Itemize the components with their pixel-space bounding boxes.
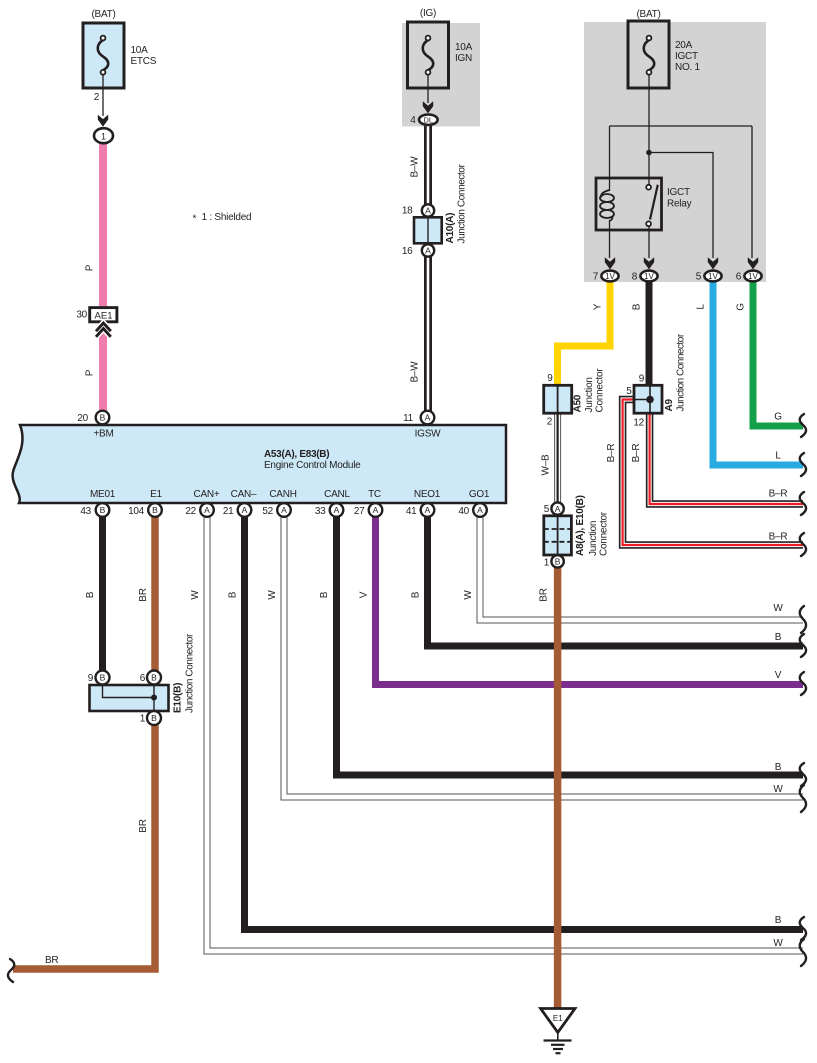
svg-text:1V: 1V: [748, 272, 758, 281]
svg-text:9: 9: [639, 374, 645, 385]
svg-text:P: P: [85, 369, 96, 376]
svg-text:B: B: [151, 713, 157, 723]
svg-text:5: 5: [626, 386, 632, 397]
svg-text:BR: BR: [539, 588, 550, 601]
svg-text:1V: 1V: [708, 272, 718, 281]
svg-text:A: A: [555, 504, 561, 514]
svg-text:*: *: [193, 214, 197, 225]
svg-text:IGSW: IGSW: [415, 429, 441, 440]
svg-text:1: 1: [140, 714, 146, 725]
svg-text:10A: 10A: [455, 42, 473, 53]
svg-text:W–B: W–B: [541, 454, 552, 476]
svg-text:E10(B): E10(B): [173, 683, 184, 713]
svg-text:ME01: ME01: [90, 489, 116, 500]
svg-text:B: B: [228, 591, 239, 598]
svg-text:A: A: [242, 505, 248, 515]
svg-text:W: W: [773, 784, 783, 795]
svg-text:21: 21: [223, 506, 234, 517]
svg-text:B: B: [151, 673, 157, 683]
svg-text:20A: 20A: [675, 40, 693, 51]
svg-text:W: W: [463, 590, 474, 600]
svg-text:B: B: [100, 505, 106, 515]
svg-text:12: 12: [633, 418, 644, 429]
svg-text:A: A: [477, 505, 483, 515]
svg-text:9: 9: [547, 373, 553, 384]
svg-text:30: 30: [76, 310, 87, 321]
svg-text:AE1: AE1: [95, 311, 113, 322]
svg-text:A10(A): A10(A): [445, 213, 456, 244]
svg-text:DL: DL: [424, 116, 434, 125]
svg-text:V: V: [775, 670, 782, 681]
svg-text:G: G: [774, 412, 782, 423]
svg-text:B: B: [775, 632, 782, 643]
svg-text:B–R: B–R: [631, 444, 642, 463]
svg-text:Junction Connector: Junction Connector: [457, 163, 468, 243]
svg-text:B–R: B–R: [769, 489, 788, 500]
svg-text:Engine Control Module: Engine Control Module: [264, 460, 361, 471]
svg-text:41: 41: [406, 506, 417, 517]
svg-text:A: A: [373, 505, 379, 515]
svg-text:E1: E1: [150, 489, 162, 500]
svg-text:A53(A), E83(B): A53(A), E83(B): [264, 449, 329, 460]
svg-text:B: B: [555, 557, 561, 567]
svg-text:P: P: [85, 264, 96, 271]
svg-text:W: W: [773, 938, 783, 949]
svg-text:BR: BR: [45, 955, 58, 966]
svg-text:2: 2: [94, 92, 100, 103]
svg-text:18: 18: [402, 206, 413, 217]
svg-text:W: W: [267, 590, 278, 600]
svg-text:20: 20: [77, 413, 88, 424]
svg-text:TC: TC: [368, 489, 381, 500]
svg-text:52: 52: [262, 506, 273, 517]
svg-text:CANH: CANH: [269, 489, 296, 500]
svg-text:(IG): (IG): [420, 8, 436, 19]
svg-text:A: A: [334, 505, 340, 515]
svg-text:33: 33: [315, 506, 326, 517]
svg-text:A: A: [281, 505, 287, 515]
svg-text:B–W: B–W: [410, 156, 421, 178]
svg-text:B: B: [775, 915, 782, 926]
svg-text:(BAT): (BAT): [91, 9, 115, 20]
svg-text:Junction: Junction: [588, 521, 599, 556]
svg-text:Y: Y: [593, 303, 604, 310]
svg-text:A50: A50: [573, 394, 584, 412]
svg-text:NO. 1: NO. 1: [675, 62, 701, 73]
svg-text:(BAT): (BAT): [636, 9, 660, 20]
svg-text:CANL: CANL: [324, 489, 350, 500]
svg-text:43: 43: [80, 506, 91, 517]
svg-text:40: 40: [458, 506, 469, 517]
svg-text:A: A: [204, 505, 210, 515]
svg-text:4: 4: [410, 115, 416, 126]
svg-text:+BM: +BM: [93, 429, 113, 440]
svg-text:Relay: Relay: [667, 199, 692, 210]
svg-text:BR: BR: [138, 819, 149, 832]
svg-text:W: W: [190, 590, 201, 600]
svg-text:A: A: [425, 505, 431, 515]
svg-text:B: B: [152, 505, 158, 515]
svg-text:6: 6: [140, 673, 146, 684]
svg-text:V: V: [359, 591, 370, 598]
svg-text:A8(A), E10(B): A8(A), E10(B): [575, 495, 586, 556]
svg-text:L: L: [775, 451, 781, 462]
svg-text:GO1: GO1: [469, 489, 490, 500]
svg-text:5: 5: [544, 504, 550, 515]
svg-text:CAN+: CAN+: [194, 489, 220, 500]
svg-text:B: B: [411, 591, 422, 598]
svg-text:B–R: B–R: [606, 444, 617, 463]
svg-text:IGCT: IGCT: [667, 187, 690, 198]
svg-text:G: G: [736, 303, 747, 311]
svg-text:Junction Connector: Junction Connector: [185, 633, 196, 713]
svg-text:IGN: IGN: [455, 53, 472, 64]
svg-text:2: 2: [547, 417, 553, 428]
svg-text:CAN–: CAN–: [231, 489, 257, 500]
svg-text:B–R: B–R: [769, 532, 788, 543]
svg-text:B: B: [100, 413, 106, 423]
svg-text:IGCT: IGCT: [675, 51, 698, 62]
svg-text:B: B: [632, 303, 643, 310]
svg-text:22: 22: [185, 506, 196, 517]
svg-text:A9: A9: [664, 399, 675, 412]
svg-text:1: 1: [101, 131, 106, 141]
svg-text:ETCS: ETCS: [131, 56, 157, 67]
svg-text:10A: 10A: [131, 45, 149, 56]
svg-text:E1: E1: [553, 1014, 563, 1023]
svg-text:A: A: [425, 413, 431, 423]
svg-text:27: 27: [354, 506, 365, 517]
svg-text:B: B: [100, 673, 106, 683]
svg-text:Junction: Junction: [584, 377, 595, 412]
svg-text:6: 6: [736, 272, 742, 283]
svg-text:L: L: [696, 304, 707, 310]
svg-text:B: B: [85, 591, 96, 598]
svg-text:Junction Connector: Junction Connector: [676, 333, 687, 411]
svg-text:1 : Shielded: 1 : Shielded: [202, 212, 252, 223]
svg-text:Connector: Connector: [595, 368, 606, 413]
svg-text:W: W: [773, 603, 783, 614]
svg-text:1: 1: [544, 557, 550, 568]
svg-text:11: 11: [403, 413, 414, 424]
svg-text:A: A: [425, 206, 431, 216]
svg-text:9: 9: [88, 673, 94, 684]
svg-text:NEO1: NEO1: [414, 489, 441, 500]
svg-text:7: 7: [593, 272, 599, 283]
svg-text:B: B: [319, 591, 330, 598]
svg-text:104: 104: [128, 506, 145, 517]
svg-text:5: 5: [696, 272, 702, 283]
svg-text:Connector: Connector: [599, 511, 610, 556]
svg-text:1V: 1V: [644, 272, 654, 281]
svg-text:16: 16: [402, 246, 413, 257]
svg-text:BR: BR: [138, 588, 149, 601]
svg-text:1V: 1V: [605, 272, 615, 281]
svg-text:8: 8: [632, 272, 638, 283]
svg-text:A: A: [425, 246, 431, 256]
svg-text:B–W: B–W: [410, 361, 421, 383]
svg-text:B: B: [775, 762, 782, 773]
